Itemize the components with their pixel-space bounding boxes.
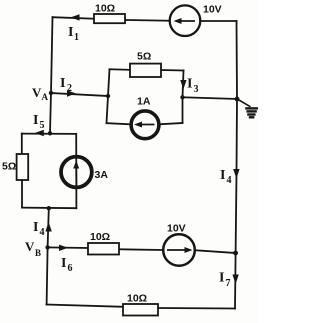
wire bottom right of R5 (158, 307, 235, 310)
junction left block bottom (47, 206, 51, 210)
wire center vertical block to node B (47, 208, 49, 304)
label I2 (60, 76, 72, 94)
wire right of V2 to right rail (196, 250, 236, 253)
wire node A horizontal (51, 93, 108, 96)
label node VB (25, 239, 41, 258)
junction right rail ground (235, 97, 240, 102)
voltage source V1 10V top (170, 5, 201, 36)
junction right rail lower (233, 251, 238, 256)
wire left block top (22, 133, 76, 135)
label I5 (33, 113, 45, 131)
arrow I5 left (35, 130, 44, 136)
svg-text:I: I (68, 25, 73, 40)
wire right vertical (235, 21, 237, 309)
arrow I6 right (59, 245, 68, 251)
svg-text:7: 7 (226, 278, 231, 289)
arrow I4 up (left) (45, 222, 51, 232)
junction block left (106, 94, 110, 98)
wire parallel block left edge (107, 69, 110, 123)
arrow I7 down (232, 275, 238, 285)
label I4 left (33, 220, 45, 238)
wire left block bottom (22, 207, 76, 210)
svg-text:B: B (35, 248, 41, 258)
svg-text:4: 4 (40, 227, 45, 238)
junction node A (49, 91, 53, 95)
label node VA (32, 85, 49, 102)
resistor R1 10ohm top (94, 14, 125, 23)
svg-text:5Ω: 5Ω (2, 161, 16, 173)
svg-text:I: I (33, 220, 38, 235)
current source I1A 1A middle (131, 111, 159, 139)
resistor R3 5ohm left (17, 154, 29, 180)
svg-text:3: 3 (194, 84, 199, 95)
svg-text:5Ω: 5Ω (137, 51, 151, 63)
svg-text:I: I (33, 113, 38, 128)
label I1 (68, 25, 79, 43)
current source I3A 3A left (61, 157, 92, 188)
svg-text:I: I (61, 256, 66, 271)
svg-text:I: I (60, 76, 65, 91)
svg-text:6: 6 (68, 263, 73, 274)
wire top-left vertical (node A branch) (50, 17, 53, 133)
junction node B (45, 245, 49, 249)
svg-text:A: A (42, 92, 49, 102)
svg-text:V: V (32, 85, 42, 100)
wire middle horizontal to right rail (183, 97, 238, 99)
label I7 (219, 271, 231, 290)
wire top right of V1 to corner (201, 20, 237, 22)
label I4 right (220, 168, 232, 186)
label I6 (61, 256, 73, 274)
label I3 (187, 77, 199, 96)
wire left block left edge lower (21, 180, 23, 208)
svg-text:5: 5 (40, 120, 45, 131)
wire bottom left of R5 (47, 305, 123, 307)
wire node B horizontal left of R4 (48, 246, 88, 249)
arrow I3 down (180, 80, 186, 89)
arrow I1 left (71, 14, 80, 20)
wire left block left edge upper (21, 134, 23, 154)
svg-text:10Ω: 10Ω (95, 3, 115, 15)
svg-text:10V: 10V (167, 223, 186, 235)
wire parallel block top branch right (161, 69, 184, 72)
junction block right (180, 95, 184, 99)
svg-text:4: 4 (227, 175, 232, 186)
svg-text:I: I (219, 271, 224, 286)
resistor R5 10ohm bottom (123, 304, 158, 316)
svg-text:I: I (220, 168, 225, 183)
svg-text:10Ω: 10Ω (127, 293, 147, 305)
svg-text:1A: 1A (137, 96, 151, 108)
svg-text:1: 1 (74, 32, 79, 43)
wire top horizontal left of R1 (53, 17, 95, 19)
svg-text:10Ω: 10Ω (90, 231, 110, 243)
resistor R4 10ohm lower middle (88, 243, 119, 255)
wire parallel block right edge (183, 71, 184, 124)
arrow I4 down (right) (233, 169, 239, 179)
wire left block right edge (75, 134, 77, 208)
wire between R4 and V2 (119, 248, 163, 251)
wire parallel block bottom branch right (159, 123, 182, 124)
arrow I2 right (67, 90, 76, 96)
ground (238, 100, 258, 118)
svg-text:3A: 3A (95, 169, 109, 181)
svg-text:10V: 10V (203, 4, 222, 16)
wire parallel block top branch left (110, 68, 131, 71)
svg-text:I: I (187, 77, 192, 92)
svg-text:2: 2 (67, 83, 72, 94)
wire parallel block bottom branch left (107, 123, 131, 124)
junction left block top (48, 131, 52, 135)
resistor R2 5ohm middle (130, 64, 161, 77)
svg-text:V: V (25, 239, 35, 254)
voltage source V2 10V bottom (163, 234, 195, 266)
wire top between R1 and V1 (125, 19, 170, 22)
